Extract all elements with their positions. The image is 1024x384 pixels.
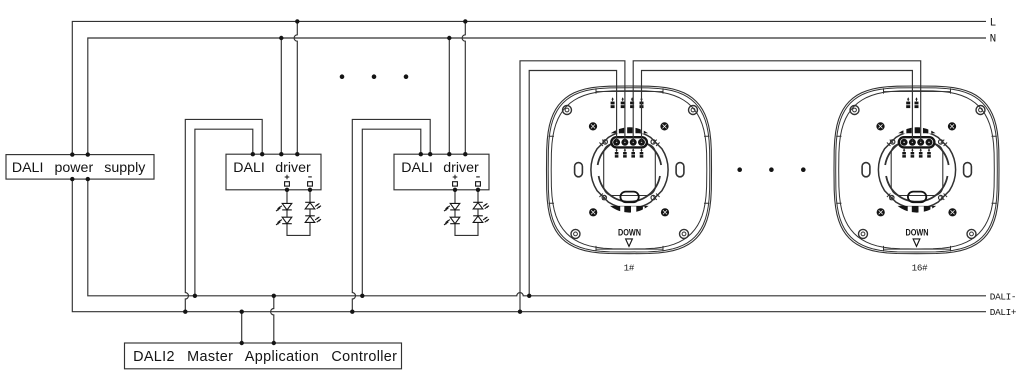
wire daisy-chain panel 1# t3 to panel 16# t3: [633, 61, 921, 143]
svg-text:DALI driver: DALI driver: [233, 160, 311, 176]
wire DALI- riser to driver 1: [195, 129, 253, 296]
mounting hole: [680, 229, 689, 238]
junction driver box top: [295, 152, 299, 156]
terminal - of driver 2: [476, 176, 480, 178]
junction on DALI-: [193, 294, 197, 298]
terminal pin: [638, 139, 645, 146]
ring tabs: [599, 140, 659, 200]
junction master box top: [240, 341, 244, 345]
wire L tap to DALI driver 2 (hops N): [462, 21, 465, 154]
svg-text:16#: 16#: [912, 262, 928, 273]
mounting hole: [689, 106, 698, 115]
module frame: [604, 144, 656, 196]
screw: [589, 208, 597, 216]
wire DALI+ riser to driver 2 (hops DALI-): [352, 119, 430, 311]
wire N tap to DALI driver 2: [448, 38, 450, 154]
panel outer frame: [547, 86, 712, 254]
LED D2d (cathode up): [473, 216, 489, 223]
junction psu bottom: [70, 177, 74, 181]
vent band bottom: [610, 206, 649, 213]
LED D1d (cathode up): [305, 216, 321, 223]
control panel 16# (back view): [834, 86, 999, 254]
junction on DALI-: [527, 294, 531, 298]
terminal + of driver 1: [285, 175, 290, 180]
junction on DALI-: [360, 294, 364, 298]
terminal pin: [621, 139, 628, 146]
module screw holes bottom: [602, 195, 606, 199]
junction driver box top: [251, 152, 255, 156]
wire N line / PSU left vertical / DALI- bus with hop: [88, 38, 986, 296]
ellipsis dots (more drivers): [340, 74, 409, 79]
down arrow: [626, 239, 633, 247]
LED D2a (cathode down): [444, 203, 460, 211]
svg-text:DALI-: DALI-: [990, 292, 1016, 303]
mounting ring: [591, 131, 668, 208]
screw: [589, 122, 597, 130]
svg-text:DALI2 Master Application Contr: DALI2 Master Application Controller: [133, 349, 397, 365]
junction on DALI+: [183, 310, 187, 314]
wire tags panel 16#: [906, 97, 918, 108]
junction driver box top: [419, 152, 423, 156]
junction on DALI+: [240, 310, 244, 314]
LED D1c (cathode up): [305, 202, 321, 209]
wire L line / PSU left vertical / DALI+ bus: [72, 21, 986, 311]
wire L tap to DALI driver 1 (hops N): [294, 21, 297, 154]
junction driver box top: [463, 152, 467, 156]
wire LED string 1: [287, 190, 310, 236]
center slot: [620, 192, 638, 203]
junction on DALI+: [350, 310, 354, 314]
terminal pin: [630, 139, 637, 146]
junction on DALI-: [272, 294, 276, 298]
svg-text:DOWN: DOWN: [618, 227, 641, 238]
junction psu top: [70, 152, 74, 156]
junction psu top: [86, 152, 90, 156]
connector dome: [598, 138, 661, 165]
junction driver box top: [260, 152, 264, 156]
junction psu bottom: [86, 177, 90, 181]
LED D2c (cathode up): [473, 202, 489, 209]
block screw holes: [603, 140, 607, 144]
DALI2 Master Application Controller box: [125, 343, 402, 369]
svg-text:N: N: [990, 34, 997, 46]
screw: [660, 122, 668, 130]
wire N tap to DALI driver 1: [280, 38, 282, 154]
wire DALI+ feed to panel 1# terminal 2: [520, 61, 625, 312]
junction driver output +: [453, 188, 457, 192]
svg-text:L: L: [990, 18, 997, 30]
side slot left: [575, 163, 583, 177]
wire DALI+ tap to master controller: [241, 312, 243, 343]
wire DALI- riser to driver 2: [362, 129, 421, 296]
junction on L line: [295, 19, 299, 23]
junction driver box top: [428, 152, 432, 156]
wire DALI- feed to panel 1# terminal 1: [529, 71, 616, 296]
side slot right: [676, 163, 684, 177]
mounting hole: [563, 106, 572, 115]
terminal block: [611, 137, 647, 147]
control panel 1# (back view): [547, 86, 712, 254]
LED D1b (cathode down): [276, 217, 292, 225]
frame bars between ticks: [596, 92, 663, 250]
svg-text:DALI+: DALI+: [990, 307, 1017, 318]
bottom dome: [599, 176, 660, 202]
wire DALI- tap to master controller (hops DALI+): [271, 296, 274, 343]
DALI power supply box: [6, 155, 154, 180]
terminal + of driver 2: [453, 175, 458, 180]
junction on N line: [447, 36, 451, 40]
junction driver box top: [279, 152, 283, 156]
wire tags panel 1#: [611, 97, 644, 108]
wire daisy-chain panel 1# t4 to panel 16# t2: [642, 71, 913, 143]
DALI driver 2 box: [394, 154, 489, 190]
wire LED string 2: [455, 190, 478, 236]
frame ticks: [549, 88, 710, 251]
screw: [661, 208, 669, 216]
junction on N line: [279, 36, 283, 40]
svg-text:1#: 1#: [624, 262, 635, 273]
junction on L line: [463, 19, 467, 23]
mounting hole: [571, 229, 580, 238]
LED D1a (cathode down): [276, 203, 292, 211]
ellipsis dots (more panels): [737, 167, 805, 172]
svg-text:DALI power supply: DALI power supply: [12, 160, 146, 176]
junction driver output -: [308, 188, 312, 192]
junction driver box top: [447, 152, 451, 156]
junction driver output -: [476, 188, 480, 192]
junction on DALI+: [518, 310, 522, 314]
svg-text:DALI driver: DALI driver: [401, 160, 479, 176]
DALI driver 1 box: [226, 154, 321, 190]
LED D2b (cathode down): [444, 217, 460, 225]
terminal - of driver 1: [308, 176, 312, 178]
terminal labels below: [615, 148, 644, 157]
terminal pin: [613, 139, 620, 146]
junction master box top: [272, 341, 276, 345]
vent band top: [611, 127, 648, 133]
junction driver output +: [285, 188, 289, 192]
wire DALI+ riser to driver 1 (hops DALI-): [185, 119, 262, 311]
